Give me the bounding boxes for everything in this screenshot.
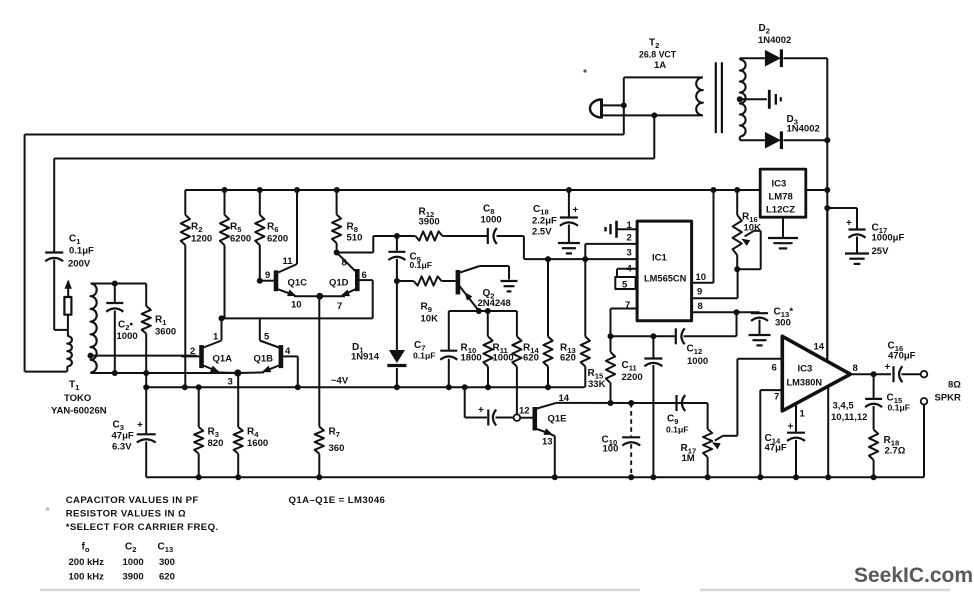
svg-text:25V: 25V [872, 246, 890, 257]
svg-text:6: 6 [772, 363, 777, 374]
svg-text:Q1B: Q1B [254, 354, 274, 365]
svg-text:1N914: 1N914 [351, 352, 380, 363]
svg-text:4: 4 [627, 264, 633, 275]
svg-text:RESISTOR VALUES IN Ω: RESISTOR VALUES IN Ω [66, 509, 186, 520]
svg-text:100 kHz: 100 kHz [69, 572, 105, 583]
svg-text:10K: 10K [744, 223, 762, 234]
svg-text:*SELECT FOR CARRIER FREQ.: *SELECT FOR CARRIER FREQ. [66, 522, 219, 533]
svg-text:IC3: IC3 [772, 179, 787, 190]
svg-text:0.1μF: 0.1μF [410, 260, 432, 270]
svg-text:14: 14 [559, 393, 570, 404]
svg-text:3600: 3600 [155, 327, 176, 338]
svg-text:2N4248: 2N4248 [478, 298, 511, 309]
svg-text:100: 100 [603, 444, 619, 455]
svg-text:2: 2 [190, 346, 195, 357]
svg-text:8Ω: 8Ω [948, 380, 961, 391]
svg-text:12: 12 [519, 406, 530, 417]
svg-text:10: 10 [291, 300, 302, 311]
svg-text:8: 8 [698, 301, 703, 312]
svg-text:1: 1 [627, 220, 633, 231]
svg-text:Q1A–Q1E = LM3046: Q1A–Q1E = LM3046 [289, 495, 386, 506]
svg-text:CAPACITOR VALUES IN PF: CAPACITOR VALUES IN PF [66, 495, 199, 506]
svg-text:2200: 2200 [622, 372, 643, 383]
svg-text:0.1μF: 0.1μF [888, 403, 910, 413]
svg-text:200 kHz: 200 kHz [69, 557, 105, 568]
svg-text:+: + [885, 362, 891, 373]
svg-text:1200: 1200 [191, 234, 212, 245]
svg-text:10K: 10K [421, 314, 439, 325]
svg-text:1000: 1000 [481, 215, 502, 226]
svg-text:5: 5 [622, 280, 628, 291]
svg-text:6: 6 [362, 270, 367, 281]
svg-text:200V: 200V [68, 259, 91, 270]
svg-text:300: 300 [159, 557, 175, 568]
svg-text:3: 3 [627, 248, 632, 259]
svg-text:13: 13 [542, 437, 553, 448]
svg-text:6200: 6200 [267, 234, 288, 245]
svg-text:3900: 3900 [123, 572, 144, 583]
svg-text:+: + [573, 205, 579, 216]
svg-text:8: 8 [342, 258, 347, 269]
svg-text:6200: 6200 [230, 234, 251, 245]
svg-text:2: 2 [627, 233, 632, 244]
svg-text:8: 8 [853, 363, 858, 374]
svg-text:TOKO: TOKO [64, 393, 91, 404]
svg-text:1M: 1M [682, 453, 695, 464]
svg-text:Q1C: Q1C [288, 278, 308, 289]
svg-text:7: 7 [774, 392, 779, 403]
svg-text:Q1E: Q1E [548, 414, 567, 425]
svg-text:10: 10 [696, 272, 707, 283]
svg-text:1: 1 [213, 332, 219, 343]
svg-text:14: 14 [814, 342, 825, 353]
svg-text:0.1μF: 0.1μF [69, 246, 94, 257]
svg-text:47μF: 47μF [112, 431, 134, 442]
svg-text:2.5V: 2.5V [532, 227, 552, 238]
svg-text:SeekIC.com: SeekIC.com [854, 564, 973, 587]
svg-text:47μF: 47μF [765, 443, 787, 454]
svg-text:0.1μF: 0.1μF [413, 351, 435, 361]
svg-text:IC3: IC3 [798, 364, 813, 375]
svg-text:1000: 1000 [687, 356, 708, 367]
svg-text:3: 3 [228, 377, 233, 388]
svg-text:26.8 VCT: 26.8 VCT [639, 50, 677, 60]
svg-text:10,11,12: 10,11,12 [831, 412, 867, 423]
svg-text:9: 9 [697, 287, 702, 298]
svg-text:~4V: ~4V [331, 376, 349, 387]
svg-text:6.3V: 6.3V [112, 442, 132, 453]
svg-text:1A: 1A [654, 60, 666, 71]
svg-text:1: 1 [800, 409, 806, 420]
svg-text:Q1D: Q1D [329, 278, 349, 289]
svg-text:IC1: IC1 [652, 253, 668, 264]
svg-text:510: 510 [347, 233, 363, 244]
svg-text:1600: 1600 [247, 438, 268, 449]
svg-text:1000: 1000 [117, 331, 138, 342]
svg-text:+: + [478, 405, 484, 416]
svg-text:5: 5 [264, 332, 270, 343]
svg-text:1000: 1000 [123, 557, 144, 568]
svg-text:620: 620 [159, 572, 175, 583]
svg-text:300: 300 [775, 318, 791, 329]
svg-text:YAN-60026N: YAN-60026N [51, 406, 107, 417]
svg-text:0.1μF: 0.1μF [666, 425, 688, 435]
svg-text:2.7Ω: 2.7Ω [885, 446, 906, 457]
svg-text:+: + [846, 218, 852, 229]
svg-text:1000μF: 1000μF [872, 233, 905, 244]
svg-text:2.2μF: 2.2μF [532, 216, 557, 227]
svg-text:4: 4 [285, 346, 291, 357]
svg-text:7: 7 [625, 300, 630, 311]
svg-text:1N4002: 1N4002 [787, 124, 820, 135]
svg-text:9: 9 [265, 270, 270, 281]
svg-text:1N4002: 1N4002 [758, 35, 791, 46]
svg-text:LM565CN: LM565CN [644, 274, 687, 284]
svg-text:Q1A: Q1A [213, 354, 233, 365]
svg-text:360: 360 [329, 443, 345, 454]
svg-text:SPKR: SPKR [935, 393, 962, 404]
svg-text:L12CZ: L12CZ [766, 205, 795, 216]
svg-text:1800: 1800 [461, 353, 482, 364]
svg-text:470μF: 470μF [888, 351, 916, 362]
svg-text:7: 7 [337, 301, 342, 312]
svg-text:1000: 1000 [493, 353, 514, 364]
svg-text:LM78: LM78 [769, 192, 793, 203]
svg-text:620: 620 [560, 353, 576, 364]
svg-text:+: + [137, 420, 143, 431]
svg-text:LM380N: LM380N [787, 378, 823, 388]
svg-text:33K: 33K [588, 379, 606, 390]
svg-text:820: 820 [208, 438, 224, 449]
svg-text:3900: 3900 [419, 217, 440, 228]
svg-text:+: + [788, 422, 794, 433]
svg-text:620: 620 [523, 353, 539, 364]
svg-text:11: 11 [283, 256, 294, 267]
svg-text:3,4,5: 3,4,5 [833, 401, 855, 412]
